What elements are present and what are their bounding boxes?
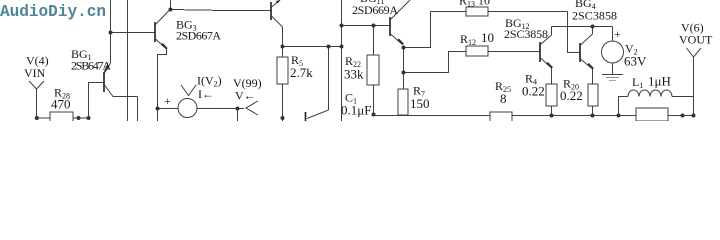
svg-text:2.7k: 2.7k [290,65,313,80]
transistor BG11 base bar [389,17,391,36]
wire emitter dot to R13 riser [404,12,467,48]
transistor BG3 collector diagonal [156,10,171,25]
svg-text:470: 470 [51,97,71,112]
transistor Q-top base bar [270,2,272,20]
source V2 circle [602,41,624,63]
ground bar long [602,74,623,76]
wire R12 right to BG12 base [488,51,540,53]
resistor R20 box [588,84,598,106]
svg-text:V←: V← [235,89,256,103]
node dot (403,47) [402,46,406,50]
node dot (78,117) [77,116,81,120]
transistor Q-top upper diagonal with arrow [272,0,281,7]
wire BG1 collector horizontal y96 [113,96,138,98]
resistor R4 box [546,84,557,106]
transistor BG12 collector diagonal [541,35,552,45]
svg-text:+: + [164,94,171,108]
svg-text:2SC3858: 2SC3858 [504,27,548,41]
wire base bus y32 to BG3 [111,32,156,34]
svg-text:63V: 63V [624,54,647,69]
resistor R7 box [398,89,408,115]
svg-text:I←: I← [198,87,214,101]
bottom rail y115 [374,115,694,117]
wire y108 left of I source [158,108,179,110]
wire BG3 emitter jog down [158,49,167,108]
resistor R12 box [466,46,488,56]
transistor BG1 collector diagonal [105,85,114,97]
node dot (157,108) [156,107,160,111]
transistor Q-bottom base bar [305,112,307,121]
resistor R5 box [277,57,288,84]
wire BG3 collector stub to top [170,0,172,10]
wire R7 bottom [403,114,405,117]
transistor BG11 collector diagonal [391,0,411,20]
node dot (282,46) [281,45,285,49]
wire top bus y10 [171,10,272,11]
wire BG12 collector riser [551,27,553,36]
svg-text:150: 150 [410,96,430,111]
wire BG4 collector riser [592,27,594,35]
node dot (341,25) [340,24,344,28]
node dot (282,118) [281,116,285,120]
wire VIN to R28 [37,117,50,119]
node dot (373,113) [372,113,376,117]
svg-text:2SD669A: 2SD669A [352,3,398,17]
transistor BG11 emitter diagonal with arrow [391,34,403,45]
wire x341 full height [341,0,343,121]
wire R22 bottom [373,85,375,116]
transistor BG1 emitter diagonal with arrow [105,63,111,72]
svg-text:AudioDiy.cn: AudioDiy.cn [0,3,106,22]
wire VOUT down [693,57,695,116]
node dot (593,115) [591,114,595,118]
transistor BG4 emitter diagonal with arrow [581,59,593,69]
svg-text:VIN: VIN [24,66,46,80]
wire R4 bottom [551,106,553,116]
svg-text:2SD667A: 2SD667A [176,29,221,43]
wire y46 bus [283,46,342,48]
resistor R25 box [490,112,512,124]
transistor BG12 base bar [539,42,541,62]
wire R22 top [373,26,375,56]
node dot (237,108) [236,107,240,111]
transistor BG3 emitter diagonal with arrow [156,39,167,49]
svg-text:0.22: 0.22 [560,88,583,103]
transistor BG12 emitter diagonal with arrow [541,58,552,68]
transistor BG3 base bar [154,22,156,42]
transistor BG4 collector diagonal [581,34,593,45]
inductor L1 coil [628,90,672,97]
svg-text:8: 8 [500,91,507,106]
svg-text:R12: R12 [460,32,476,47]
ground bar short [609,80,616,82]
transistor BG1 base bar [103,72,105,92]
node dot (403,72) [402,71,406,75]
resistor RL box parallel [636,108,668,121]
source I circle [178,99,197,118]
resistor R13 box [466,7,488,16]
transistor Q-top lower diagonal [272,16,283,27]
svg-text:L1: L1 [632,75,643,90]
wire base bus y25 to BG11 [342,25,391,27]
svg-text:+: + [614,27,621,41]
wire x328 down [328,47,330,111]
svg-text:2SC3858: 2SC3858 [572,9,617,23]
node dot (37,117) [35,116,39,120]
node dot (88,117) [87,116,91,120]
resistor R28 box [50,112,73,123]
wire R13 right bus y11 [488,11,568,13]
wire y108 right of I source [197,108,244,110]
wire R20 bottom [592,106,594,116]
wire R28 right [73,117,89,119]
wire BG1 base lead [89,83,104,119]
wire BG4 base riser x567 [568,12,581,53]
svg-text:1μH: 1μH [648,74,671,89]
wire V2 bottom [612,63,614,74]
svg-text:10: 10 [481,30,494,45]
transistor BG4 base bar [579,43,581,62]
node dot (692,115) [692,114,696,118]
output terminal VOUT Y symbol [687,48,702,57]
input terminal VIN Y symbol [29,81,44,89]
node dot (328,46) [327,45,331,49]
wire BG4 emitter to R20 [592,69,594,84]
wire BG1 collector down x137 [137,97,139,122]
wire V2 top [612,27,614,42]
node dot (551,115) [550,114,554,118]
ground bar mid [606,77,619,79]
wire vertical x127 full height [127,0,129,121]
svg-text:0.22: 0.22 [522,84,545,99]
wire BG12 emitter to R4 [551,68,553,84]
voltage probe arrow [246,101,258,115]
node dot (682,115) [681,114,685,118]
node dot (170,9) [169,8,173,12]
wire Q-top collector down x282 [282,27,284,57]
svg-text:VOUT: VOUT [679,33,713,47]
wire VIN stem [36,89,38,118]
wire vertical x110 from top [110,0,112,63]
wire R5 bottom [282,84,284,121]
wire y26 bus [552,26,613,28]
wire x157 below dot [157,109,159,122]
node dot (341,46) [340,45,344,49]
node dot (373,25) [372,24,376,28]
svg-text:R13 10: R13 10 [459,0,490,9]
svg-text:0.1μF: 0.1μF [341,103,371,118]
node dot (110,33) [109,31,113,35]
wire y72 to R12 riser [404,52,467,73]
inductor L1 branch riser [619,97,629,116]
node dot (618,115) [617,114,621,118]
wire x237 below dot [237,109,239,122]
svg-text:33k: 33k [344,67,364,82]
wire L1 right [672,96,694,98]
current probe check arrow [181,85,196,96]
svg-text:2SB647A: 2SB647A [71,59,111,73]
resistor R22 box [367,55,379,85]
node dot (592,26) [591,25,595,29]
wire x403 down to R7 [403,48,405,90]
transistor Q-bottom diagonal [307,110,329,119]
